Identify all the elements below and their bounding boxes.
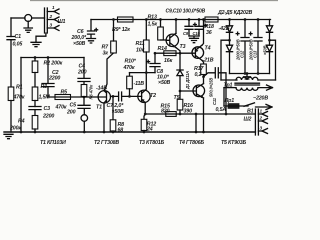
transformer Tr1 primary: [224, 87, 236, 89]
svg-text:Ш2: Ш2: [244, 117, 252, 123]
svg-text:С3: С3: [44, 106, 51, 112]
bus node dots: [20, 131, 23, 134]
transistor T4 GT806B: [192, 47, 204, 59]
svg-text:500,0×25В: 500,0×25В: [209, 78, 214, 97]
svg-text:Т2 ГТ308В: Т2 ГТ308В: [94, 140, 119, 146]
svg-text:R14: R14: [158, 46, 167, 52]
wire gate: [71, 96, 99, 98]
node dot gate: [83, 96, 86, 99]
svg-text:Т3: Т3: [180, 44, 186, 50]
svg-text:Т5 КТ903Б: Т5 КТ903Б: [221, 140, 246, 146]
resistor R8 68: [112, 96, 114, 119]
svg-text:Д2-Д5 КД202В: Д2-Д5 КД202В: [217, 10, 252, 16]
node dot C2 top: [47, 56, 50, 59]
capacitor C2 2200: [42, 58, 55, 98]
svg-text:С13: С13: [253, 50, 258, 58]
main ground symbol: [4, 134, 13, 138]
capacitor C8 10.0x50V: [150, 53, 160, 72]
T5 base wire: [179, 90, 182, 93]
supply rail: [91, 19, 271, 21]
svg-text:16к: 16к: [164, 58, 173, 64]
T4 emitter to rail: [202, 18, 205, 21]
Sh1 pin 2: [47, 17, 59, 22]
wire R2 to R3: [34, 73, 36, 88]
resistor R5 470k: [55, 95, 71, 100]
svg-text:200к: 200к: [9, 126, 21, 132]
svg-text:2: 2: [49, 14, 53, 19]
svg-text:R2 200к: R2 200к: [44, 61, 63, 67]
capacitor C11 500x25V: [202, 75, 205, 78]
bridge rectifier column 2: [269, 20, 271, 26]
svg-text:200: 200: [66, 110, 76, 116]
svg-text:~220В: ~220В: [253, 96, 268, 102]
T5 collector/emitter to vertical: [203, 75, 205, 133]
svg-text:С10: С10: [193, 31, 201, 36]
resistor R12 24: [144, 114, 145, 119]
resistor R13 1.5k: [159, 18, 162, 21]
svg-text:0,2: 0,2: [195, 72, 202, 78]
transistor T5 KT903B: [193, 85, 205, 97]
svg-text:R9* 12к: R9* 12к: [112, 27, 130, 33]
T1 drain up to R7: [104, 53, 113, 91]
bridge mid taps: [228, 39, 231, 42]
svg-text:200: 200: [77, 70, 87, 76]
wire connector bottom to ground: [36, 33, 46, 42]
svg-text:-11В: -11В: [134, 81, 145, 87]
svg-text:0,5А: 0,5А: [216, 107, 227, 113]
svg-text:470к: 470к: [55, 105, 67, 111]
ground bus: [4, 131, 255, 133]
C9 C10 ground: [189, 36, 199, 43]
Sh2 pin 3: [258, 129, 267, 134]
svg-text:Т4: Т4: [205, 46, 211, 52]
Sh1 pin 1: [47, 9, 59, 14]
svg-text:Д1 Д311А: Д1 Д311А: [185, 71, 190, 90]
mains arrow top: [258, 85, 273, 90]
svg-text:0,05: 0,05: [13, 42, 24, 48]
svg-text:390: 390: [184, 109, 193, 115]
capacitor C3 2200: [29, 107, 41, 110]
socket circle below C5: [81, 115, 88, 122]
resistor R1 470k: [8, 87, 14, 101]
wire node bus y57: [21, 57, 84, 59]
svg-text:3: 3: [50, 23, 53, 28]
fuse Pr1: [224, 105, 248, 107]
resistor R17 0.2: [201, 64, 207, 75]
svg-text:820: 820: [161, 109, 170, 115]
transistor T2 GT308V: [138, 90, 150, 102]
svg-text:1,5к: 1,5к: [148, 22, 158, 28]
bridge rectifier column 1: [228, 18, 231, 21]
transistor T3 KT801B: [166, 34, 178, 46]
svg-text:Т4 ГТ806Б: Т4 ГТ806Б: [179, 140, 204, 146]
resistor R7 3k: [111, 41, 117, 53]
resistor R10* 470k vertical with feedback wire: [130, 72, 156, 74]
svg-text:2: 2: [259, 116, 263, 121]
svg-text:Тр1: Тр1: [224, 83, 233, 89]
wire primary to fuse: [223, 88, 225, 106]
switch V1: [244, 103, 255, 107]
transformer core: [235, 83, 260, 85]
svg-text:Т1 КП103И: Т1 КП103И: [40, 140, 66, 146]
svg-text:Т2: Т2: [150, 93, 156, 99]
svg-text:Ш1: Ш1: [58, 19, 66, 25]
capacitor C1: [7, 37, 15, 40]
resistor R16 390: [179, 91, 181, 99]
svg-text:470к: 470к: [123, 65, 135, 71]
connector Sh2 bars: [255, 109, 258, 135]
mains arrow bottom: [256, 104, 273, 109]
top edge line: [30, 0, 278, 2]
ground below jack: [24, 21, 32, 32]
T3 collector to rail: [175, 18, 178, 21]
capacitor C10: [198, 18, 201, 21]
svg-text:С11: С11: [212, 97, 217, 105]
wire input top: [11, 17, 25, 19]
ground below connector: [31, 42, 41, 46]
wire C1 to R1: [10, 40, 12, 87]
T1 source down: [103, 103, 105, 132]
capacitor C9: [188, 18, 191, 21]
svg-text:36: 36: [206, 30, 212, 36]
svg-text:R4: R4: [18, 119, 25, 125]
resistor R6 470k: [81, 85, 87, 97]
bridge bottom rail: [230, 73, 270, 75]
capacitor C12: [244, 18, 247, 21]
svg-text:470к: 470к: [13, 95, 25, 101]
node dot R7 rail: [112, 18, 115, 21]
svg-text:С9: С9: [183, 31, 189, 36]
svg-text:Пр1: Пр1: [225, 98, 235, 104]
svg-text:R6 470к: R6 470к: [89, 84, 94, 100]
svg-text:R11: R11: [136, 41, 145, 47]
ground tap bridge: [246, 72, 249, 75]
svg-text:Т3 КТ801Б: Т3 КТ801Б: [139, 140, 164, 146]
T3 emitter down: [176, 48, 180, 54]
capacitor C5 200: [78, 97, 90, 115]
transistor T1 KP103I: [98, 91, 110, 103]
svg-text:R1: R1: [16, 85, 23, 91]
svg-text:×50В: ×50В: [263, 45, 268, 55]
svg-text:10к: 10к: [136, 48, 145, 54]
resistor R14 16k: [164, 51, 176, 56]
wire y114 to bus drop: [195, 113, 198, 116]
wire left drop: [20, 58, 22, 133]
resistor R9* 12k: [118, 17, 134, 22]
capacitor C6 with ground: [87, 20, 96, 44]
Sh2 pin 1: [258, 112, 267, 117]
resistor R11 10k: [145, 18, 148, 21]
T2 emitter down: [144, 103, 146, 114]
resistor R18 36: [205, 17, 218, 22]
svg-text:×50В: ×50В: [158, 80, 171, 86]
base chain wire y53: [155, 52, 195, 54]
resistor R4 200k: [32, 116, 38, 130]
diode D1 D311A: [179, 53, 181, 70]
node dots: [154, 52, 157, 55]
long wire y114: [145, 113, 255, 115]
svg-text:2200: 2200: [42, 114, 54, 120]
resistor R3 1.5M: [32, 87, 38, 101]
capacitor C13: [257, 18, 260, 21]
capacitor C4 200: [78, 58, 90, 85]
node dot R2 top: [34, 56, 37, 59]
svg-text:3к: 3к: [103, 51, 109, 57]
wire input down: [10, 18, 12, 37]
svg-text:R13: R13: [148, 15, 157, 21]
resistor R15 820: [166, 112, 176, 117]
svg-text:3: 3: [260, 126, 263, 131]
svg-text:В1: В1: [247, 109, 254, 115]
svg-text:R10*: R10*: [125, 59, 137, 65]
connector Sh1 bars: [45, 8, 48, 33]
svg-text:С12: С12: [240, 50, 245, 58]
wire jack to connector: [32, 17, 45, 19]
transformer Tr1 secondary: [221, 79, 237, 81]
svg-text:С1: С1: [15, 34, 22, 40]
svg-text:С9,С10 100,0*50В: С9,С10 100,0*50В: [166, 9, 206, 15]
capacitor C7 2.0x50V: [111, 92, 142, 101]
svg-text:1: 1: [260, 109, 263, 114]
svg-text:2200: 2200: [48, 76, 60, 82]
Sh2 pin 2: [258, 119, 267, 124]
jack circle input: [25, 15, 32, 22]
svg-text:-21В: -21В: [203, 58, 214, 64]
resistor R2 200k: [34, 58, 36, 62]
T4 collector to R17: [202, 60, 204, 64]
svg-text:Т1: Т1: [96, 105, 102, 111]
wire C3 to R4: [34, 110, 36, 116]
svg-text:×50В: ×50В: [73, 41, 86, 47]
svg-text:1: 1: [52, 5, 55, 10]
Sh1 pin 3: [47, 26, 59, 31]
